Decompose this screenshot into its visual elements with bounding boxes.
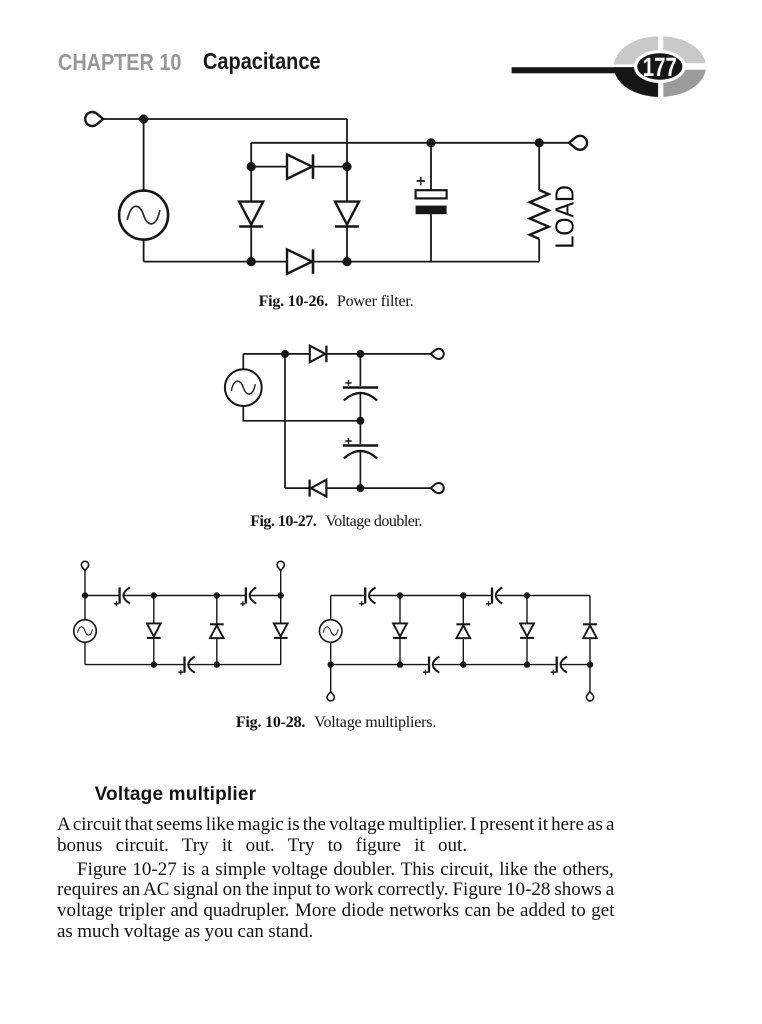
wire top rail bbox=[103, 118, 347, 120]
wire output rail bbox=[251, 142, 569, 144]
wire terminal drop bbox=[84, 571, 86, 596]
wire top rail bbox=[243, 353, 430, 355]
wire source top stub bbox=[330, 596, 332, 620]
output terminal top bbox=[431, 349, 444, 359]
wire bottom rail bbox=[285, 487, 431, 489]
plus label C10 bbox=[551, 670, 556, 675]
wire to source bbox=[143, 119, 145, 191]
capacitor C6 bbox=[185, 657, 195, 673]
diode D1 top bbox=[287, 154, 313, 178]
terminal out bottom right bbox=[586, 692, 593, 701]
diode D8 bbox=[210, 596, 224, 665]
wire source bottom stub bbox=[330, 642, 332, 664]
node dots top rail bbox=[397, 592, 530, 598]
diode D4 bottom bbox=[287, 249, 313, 273]
diode D13 bbox=[583, 596, 597, 665]
wire top rail bbox=[331, 595, 590, 597]
node dots top rail bbox=[82, 592, 284, 598]
node dot mid bbox=[356, 417, 364, 425]
wire source bottom stub bbox=[84, 642, 86, 664]
wire bridge right branch bbox=[346, 167, 348, 262]
diode D9 bbox=[274, 596, 288, 665]
plus label C5 bbox=[240, 601, 245, 606]
badge white cross bbox=[611, 33, 708, 101]
wire terminal drop bbox=[280, 571, 282, 596]
resistor LOAD bbox=[530, 143, 549, 262]
PAGE BADGE bbox=[512, 33, 708, 101]
badge quadrants bbox=[614, 36, 706, 97]
node dot bottom bbox=[356, 484, 364, 492]
capacitor C3 bbox=[343, 421, 378, 488]
output terminal bbox=[569, 136, 587, 150]
AC source V2 bbox=[225, 369, 262, 406]
plus label C4 bbox=[114, 601, 119, 606]
diode D11 bbox=[456, 596, 470, 665]
plus label C1 bbox=[417, 177, 425, 186]
wire bridge output stub bbox=[250, 143, 252, 167]
wire source top stub bbox=[84, 596, 86, 620]
wire source to bottom rail bbox=[143, 240, 145, 262]
plus label C9 bbox=[423, 670, 428, 675]
node dot bbox=[356, 350, 364, 358]
caption fig 10-26 bbox=[57, 294, 615, 310]
capacitor C8 bbox=[492, 587, 502, 603]
diode D6 bbox=[310, 480, 327, 497]
diode D12 bbox=[520, 596, 534, 665]
badge center ellipse bbox=[636, 52, 684, 82]
node dots bottom rail bbox=[328, 661, 594, 667]
caption fig 10-28 bbox=[57, 715, 615, 731]
wire top rail bbox=[85, 595, 281, 597]
wire bottom rail bbox=[331, 664, 590, 666]
capacitor C2 bbox=[343, 354, 378, 421]
capacitor C5 bbox=[246, 587, 256, 603]
diode D7 bbox=[147, 596, 161, 665]
node dots bottom rail bbox=[151, 661, 220, 667]
diode D2 left bbox=[239, 202, 263, 227]
AC source V4 bbox=[319, 620, 342, 643]
input terminal bbox=[85, 112, 103, 126]
caption fig 10-27 bbox=[57, 514, 615, 530]
node dot A bbox=[139, 114, 148, 123]
terminal in left bbox=[81, 561, 88, 570]
plus label C3 bbox=[345, 438, 351, 444]
wire bridge top bbox=[251, 166, 347, 168]
diode D5 bbox=[310, 346, 327, 363]
wire left drop bbox=[284, 354, 286, 488]
paragraph 2 bbox=[57, 860, 615, 944]
plus label C2 bbox=[345, 380, 351, 386]
capacitor C10 bbox=[557, 657, 567, 673]
wire bridge left branch bbox=[250, 167, 252, 262]
diode D10 bbox=[393, 596, 407, 665]
AC source V3 bbox=[74, 620, 97, 643]
plus label C7 bbox=[359, 601, 364, 606]
terminal out bottom left bbox=[327, 692, 334, 701]
terminal out right bbox=[277, 561, 284, 570]
capacitor C1 bbox=[416, 143, 447, 262]
wire source top bbox=[242, 354, 244, 369]
node dots bridge corners bbox=[247, 138, 544, 266]
wire terminal drop left bbox=[330, 665, 332, 692]
paragraph 1 bbox=[57, 815, 614, 857]
section heading bbox=[95, 785, 257, 804]
diode D3 right bbox=[335, 202, 359, 227]
capacitor C9 bbox=[429, 657, 439, 673]
wire terminal drop right bbox=[589, 665, 591, 692]
chapter header bbox=[58, 51, 181, 74]
capacitor C4 bbox=[120, 587, 130, 603]
wire bottom rail bbox=[85, 664, 281, 666]
capacitor C7 bbox=[365, 587, 375, 603]
output terminal bottom bbox=[431, 483, 444, 493]
plus label C6 bbox=[178, 670, 183, 675]
header rule line bbox=[512, 67, 648, 73]
wire bottom rail bbox=[144, 261, 540, 263]
wire source bottom bbox=[243, 406, 360, 421]
svg-text:LOAD: LOAD bbox=[549, 185, 579, 249]
wire top rail drop bbox=[346, 119, 348, 167]
node dot bbox=[281, 350, 289, 358]
svg-text:177: 177 bbox=[643, 52, 677, 82]
AC source V1 bbox=[119, 191, 168, 240]
plus label C8 bbox=[486, 601, 491, 606]
